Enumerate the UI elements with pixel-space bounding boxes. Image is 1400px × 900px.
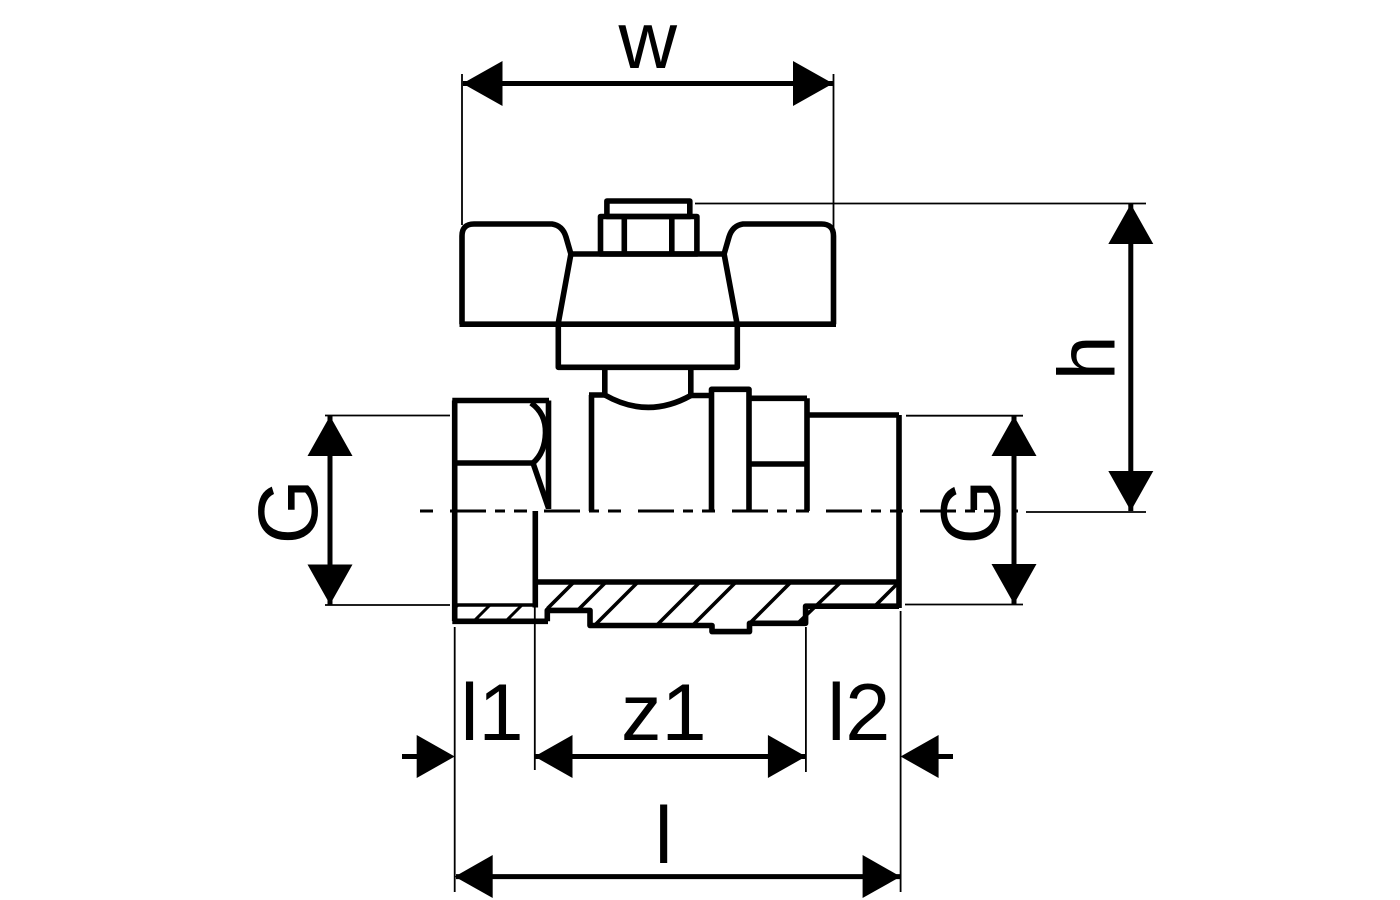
nut hatch line (474, 605, 490, 621)
stem nut facet line right (669, 217, 675, 255)
svg-text:l2: l2 (827, 668, 890, 758)
hatch line (798, 582, 841, 623)
ball chamber top arc (605, 395, 691, 407)
svg-text:z1: z1 (621, 668, 707, 758)
extension line 1 (454, 627, 456, 892)
thread cone line (533, 463, 548, 508)
shoulder line left of stem (589, 392, 607, 398)
hatch line (875, 583, 899, 607)
stem right (688, 367, 694, 395)
hatch line (547, 582, 574, 609)
W extension line right (833, 74, 835, 228)
thread chamfer arc (531, 403, 546, 463)
l2 outer arrow tail right (938, 754, 953, 759)
body hex facet line (749, 461, 807, 467)
top cap (607, 201, 690, 217)
hatch line (657, 582, 701, 626)
body hex top (749, 395, 807, 401)
G left dimension line (328, 416, 333, 605)
union nut mid line (455, 460, 533, 466)
W arrowhead left (463, 61, 503, 106)
W dimension line (463, 81, 833, 86)
h dimension line (1128, 204, 1133, 511)
G left arrowhead top (308, 416, 353, 456)
l arrowhead left (455, 855, 493, 898)
body bottom profile (547, 606, 899, 631)
bore line (535, 579, 899, 585)
union nut left edge (452, 401, 458, 622)
h arrowhead bottom (1108, 471, 1153, 511)
gland ring (712, 389, 750, 511)
z1 arrowhead right (768, 735, 806, 778)
h extension line bottom (1026, 511, 1146, 513)
union nut right face (546, 401, 552, 510)
nut hatch line (corner) (455, 605, 458, 608)
G left arrowhead bottom (308, 565, 353, 605)
l arrowhead right (863, 855, 901, 898)
stem nut (601, 217, 697, 255)
z1 dimension line (535, 754, 806, 759)
h arrowhead top (1108, 204, 1153, 244)
l2 outer arrowhead right (901, 735, 939, 778)
centerline (dash-dot) (420, 510, 1018, 513)
handle boss top (571, 251, 724, 257)
W extension line left (461, 74, 463, 225)
W arrowhead right (793, 61, 833, 106)
bore step edge (532, 511, 538, 608)
h extension line top (695, 203, 1146, 205)
extension line 4 (900, 611, 902, 892)
l1 outer arrow tail left (402, 754, 418, 759)
wing bottom line (460, 321, 837, 327)
svg-text:w: w (617, 0, 677, 86)
stem left (602, 367, 608, 395)
nut wall section top line (455, 603, 533, 607)
left wing (462, 224, 571, 324)
male thread top (807, 412, 899, 418)
G left extension line bottom (325, 604, 450, 606)
union nut top (452, 398, 549, 404)
l dimension line (456, 874, 900, 879)
G right arrowhead bottom (992, 564, 1037, 604)
G left extension line top (325, 415, 450, 417)
svg-text:l1: l1 (460, 668, 523, 758)
hatch line (750, 582, 791, 623)
body hex right edge (804, 398, 810, 511)
shoulder line right of stem (688, 393, 712, 399)
hatch line (693, 582, 737, 626)
G right dimension line (1012, 416, 1017, 604)
extension line 3 (805, 627, 807, 772)
l1 outer arrowhead left (417, 735, 455, 778)
G right extension line top (906, 415, 1023, 417)
svg-text:h: h (1043, 335, 1133, 380)
male thread end face (896, 415, 902, 608)
z1 arrowhead left (535, 735, 573, 778)
union nut bottom (452, 618, 548, 624)
stem nut facet line left (621, 217, 627, 255)
G right extension line bottom (905, 604, 1023, 606)
handle skirt (558, 324, 737, 367)
svg-text:G: G (241, 479, 335, 544)
ball chamber left edge (589, 395, 595, 511)
svg-text:l: l (655, 791, 673, 881)
extension line 2 (534, 608, 536, 771)
nut hatch line (506, 605, 522, 621)
G right arrowhead top (992, 416, 1037, 456)
hatch line (578, 582, 606, 610)
right wing (724, 224, 833, 324)
hatch line (595, 582, 639, 626)
